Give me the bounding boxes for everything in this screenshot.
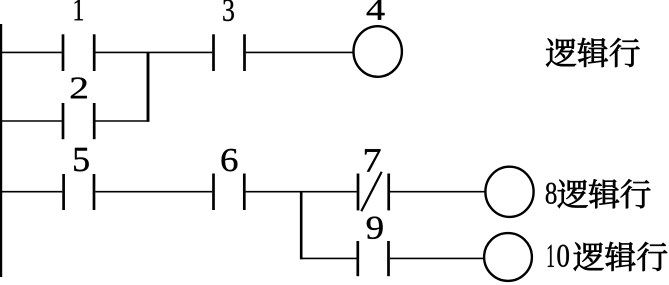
pin label 3 (223, 0, 234, 21)
net label: logic row 8 (8逻辑行) (546, 179, 651, 208)
wire: branch junction to contact 9 (300, 257, 357, 259)
contact 1 (63, 34, 94, 71)
contact 3 (214, 34, 245, 71)
net label: logic row 10 (10逻辑行) (548, 242, 667, 271)
branch riser: contact 2 branch up to row 1 (147, 52, 150, 121)
wire: contact 7 to coil 8 (390, 191, 485, 193)
pin label 2 (71, 77, 87, 98)
coil 4 (354, 26, 402, 77)
contact 2 (63, 103, 94, 139)
pin label 6 (222, 149, 238, 171)
coil 10 (484, 233, 532, 281)
wire: contact 5 to contact 6 (95, 191, 212, 193)
contact 5 (64, 174, 94, 210)
coil 8 (485, 167, 533, 217)
wire: rail to contact 5 (0, 191, 62, 193)
wire: rail to contact 1 (0, 51, 62, 53)
contact 7 (normally closed) (358, 172, 389, 212)
net label: logic row 1 (逻辑行) (546, 38, 640, 67)
pin label 7 (365, 149, 380, 171)
wire: contact 6 to contact 7 (246, 191, 357, 193)
wire: contact 9 to coil 10 (390, 257, 484, 259)
contact 6 (214, 174, 245, 211)
wire: contact 3 to coil 4 (246, 51, 353, 53)
wire: contact 2 to branch junction (95, 120, 149, 122)
branch riser: row 2 down to contact 9 branch (300, 192, 303, 260)
contact 9 (358, 241, 389, 276)
wire: contact 1 to contact 3 (95, 51, 212, 53)
pin label 9 (367, 217, 383, 239)
pin label 5 (74, 148, 89, 171)
left power rail (0, 24, 2, 277)
wire: rail to contact 2 (parallel branch) (0, 120, 62, 122)
pin label 1 (75, 0, 84, 20)
pin label 4 (367, 0, 385, 20)
